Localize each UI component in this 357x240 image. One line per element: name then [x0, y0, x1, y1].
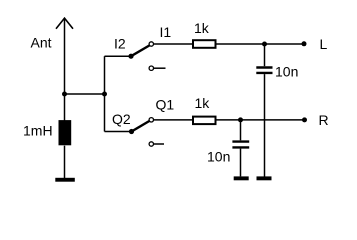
switch Q2/Q1 pole [129, 129, 134, 134]
svg-text:Q2: Q2 [112, 111, 131, 127]
antenna ANT [56, 18, 73, 94]
switch I throw 1 contact [149, 42, 153, 46]
stub throw 2 bottom [154, 143, 164, 145]
svg-text:I2: I2 [114, 35, 126, 51]
node junction left [62, 92, 67, 97]
wire junction to cap C2 [240, 120, 242, 140]
wire junction to cap C1 [264, 44, 266, 66]
svg-text:R: R [319, 112, 329, 128]
switch Q throw 2 contact [149, 142, 153, 146]
wire junction horizontal [65, 93, 105, 95]
svg-text:1k: 1k [195, 95, 211, 111]
svg-text:Ant: Ant [31, 35, 52, 51]
wire junction to inductor [64, 94, 66, 122]
wire throw1 to resistor [154, 43, 192, 45]
terminal R [302, 117, 307, 122]
stub throw 2 [154, 67, 166, 69]
inductor L1 1mH [59, 120, 72, 145]
node D junction [238, 117, 243, 122]
svg-text:L: L [320, 36, 328, 52]
node junction right [102, 92, 107, 97]
terminal L [302, 41, 307, 46]
svg-text:10n: 10n [207, 149, 230, 165]
svg-text:I1: I1 [160, 24, 172, 40]
switch I lever [131, 45, 150, 56]
wire vertical to switches [104, 56, 106, 131]
node C junction [262, 42, 267, 47]
wire cap C2 to ground [240, 149, 242, 177]
wire inductor to ground [64, 146, 66, 178]
switch Q lever [132, 121, 150, 132]
switch Q throw 1 contact [149, 118, 153, 122]
wire cap C1 to ground [264, 74, 266, 176]
svg-text:Q1: Q1 [156, 96, 175, 112]
wire resistor R2 to R terminal [217, 119, 305, 121]
switch I2/I1 pole [128, 54, 133, 59]
svg-text:1mH: 1mH [23, 122, 53, 138]
switch I throw 2 contact [149, 66, 153, 70]
svg-text:1k: 1k [194, 20, 210, 36]
capacitor C2 10n [232, 142, 249, 148]
ground left [55, 178, 75, 182]
resistor R2 1k [193, 117, 216, 125]
wire resistor to L terminal [217, 43, 305, 45]
ground right [257, 176, 272, 180]
svg-text:10n: 10n [275, 64, 298, 80]
resistor R1 1k [193, 40, 216, 48]
ground middle [234, 176, 249, 180]
wire throw1 to resistor R2 [154, 119, 192, 121]
wire to Q2 pole [105, 131, 132, 133]
wire to I2 pole [105, 55, 132, 57]
capacitor C1 10n [256, 68, 272, 73]
